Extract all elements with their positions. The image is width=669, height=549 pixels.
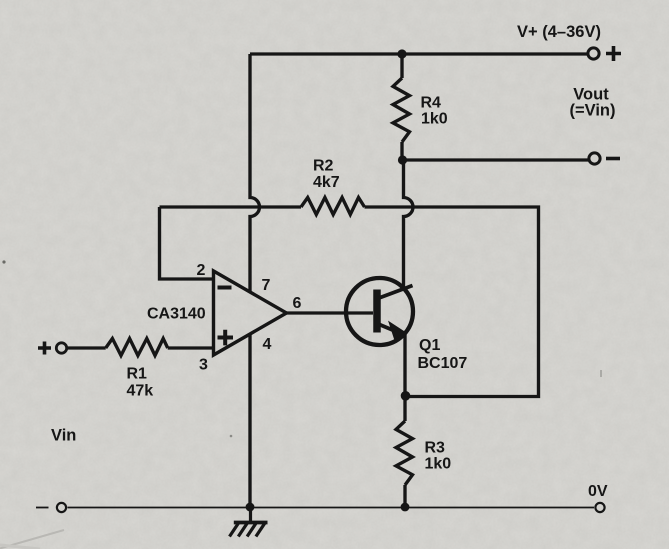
svg-text:4k7: 4k7 xyxy=(313,174,340,191)
svg-text:R4: R4 xyxy=(421,95,442,112)
resistor R2 xyxy=(301,198,365,215)
plus sign input xyxy=(38,342,51,355)
svg-text:7: 7 xyxy=(262,277,271,294)
0V rail xyxy=(36,507,594,509)
terminal 0V right xyxy=(595,503,604,512)
svg-text:R2: R2 xyxy=(313,158,334,175)
transistor Q1 xyxy=(346,278,413,345)
wire op-amp output to base xyxy=(287,311,374,314)
ground xyxy=(230,507,268,537)
svg-text:0V: 0V xyxy=(588,483,608,500)
terminal Vout minus xyxy=(589,153,600,164)
svg-text:2: 2 xyxy=(197,262,206,279)
svg-text:V+ (4–36V): V+ (4–36V) xyxy=(517,23,601,41)
svg-text:Q1: Q1 xyxy=(419,337,440,354)
svg-text:CA3140: CA3140 xyxy=(147,306,206,323)
minus sign Vout xyxy=(606,157,620,161)
svg-text:R3: R3 xyxy=(425,440,446,457)
terminal V+ xyxy=(588,48,599,59)
faint scan streak bottom-left xyxy=(0,530,64,549)
wire R2 left feedback leg to pin 2 xyxy=(160,207,214,279)
svg-text:6: 6 xyxy=(293,295,302,312)
svg-text:(=Vin): (=Vin) xyxy=(570,102,616,120)
node dot R4 bottom junction xyxy=(398,155,407,164)
svg-text:1k0: 1k0 xyxy=(425,456,452,473)
wire pin7 vertical upper with hop over R2 wire xyxy=(250,54,260,292)
plus sign V+ xyxy=(606,46,621,61)
wire R2 left segment xyxy=(160,205,302,208)
svg-text:3: 3 xyxy=(199,357,208,374)
emitter arrowhead xyxy=(390,323,407,339)
wire pin4 vertical lower to 0V rail xyxy=(248,335,251,508)
wire collector vertical with hop over R2 wire xyxy=(404,160,414,288)
wire top V+ rail xyxy=(250,52,588,55)
wire input plus to R1 xyxy=(67,346,106,349)
svg-text:R1: R1 xyxy=(127,366,148,383)
wire output minus rail xyxy=(402,158,589,161)
wire R3 bottom stub xyxy=(403,485,406,507)
terminal input xyxy=(56,343,66,353)
svg-text:Vin: Vin xyxy=(51,427,76,445)
resistor R1 xyxy=(106,339,168,356)
node dot R4 top xyxy=(397,49,406,58)
terminal 0V left xyxy=(57,503,66,512)
wire R1 to pin 3 xyxy=(168,346,214,349)
svg-text:1k0: 1k0 xyxy=(421,111,448,128)
wire R3 top stub xyxy=(403,397,406,422)
node dot R3 bottom xyxy=(401,503,410,512)
wire R2 right to feedback loop xyxy=(365,207,539,397)
resistor R4 xyxy=(393,78,410,142)
wire R4 bottom stub xyxy=(400,142,403,160)
wire R4 top stub xyxy=(400,54,403,78)
node dot ground junction xyxy=(246,503,255,512)
wire emitter vertical xyxy=(403,334,406,397)
svg-text:4: 4 xyxy=(263,336,272,353)
svg-text:BC107: BC107 xyxy=(418,355,468,372)
resistor R3 xyxy=(396,421,413,485)
node dot emitter junction xyxy=(401,391,411,401)
svg-text:47k: 47k xyxy=(127,383,154,400)
op-amp U1 CA3140 xyxy=(214,271,287,355)
